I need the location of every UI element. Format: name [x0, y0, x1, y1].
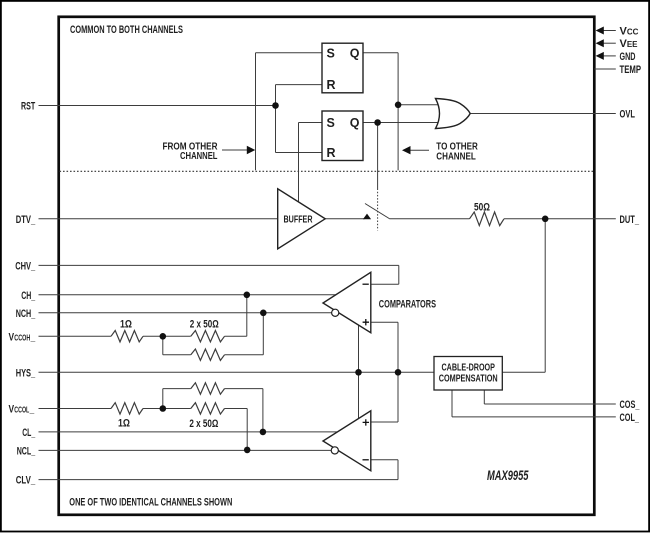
- svg-text:COS_: COS_: [620, 399, 641, 411]
- cable-droop compensation block: [434, 357, 502, 391]
- svg-text:GND: GND: [620, 51, 636, 63]
- wire GND pin: [602, 55, 616, 57]
- svg-text:COMPARATORS: COMPARATORS: [379, 299, 436, 311]
- comparator A minus sign: [363, 283, 369, 285]
- node Q1/OR junction: [395, 102, 402, 109]
- wire S2 vertical to buffer: [298, 123, 300, 202]
- resistor 50ohm zigzag: [470, 212, 505, 226]
- wire 2x50A to CL vertical: [225, 388, 263, 390]
- wire RST vertical to R inputs: [275, 85, 277, 153]
- svg-text:NCH_: NCH_: [16, 308, 36, 320]
- dotted separator line: [60, 170, 594, 172]
- svg-text:CHANNEL: CHANNEL: [436, 151, 476, 163]
- comparator B inverting bubble on NCL_: [331, 447, 338, 454]
- wire DTV_ input: [39, 218, 278, 220]
- svg-text:Q: Q: [350, 46, 360, 60]
- resistor 2x50 lower-A zigzag: [191, 383, 225, 394]
- svg-text:COL_: COL_: [620, 412, 640, 424]
- right pin labels: [620, 26, 642, 425]
- comparator B plus sign: [363, 419, 369, 425]
- node VCCOH junction: [160, 333, 167, 340]
- wire CLV_ input: [39, 479, 399, 481]
- wire Q2 output to OR gate input 2: [363, 122, 440, 124]
- svg-text:R: R: [327, 146, 336, 160]
- wire CL vertical: [262, 389, 264, 432]
- svg-text:CABLE-DROOP: CABLE-DROOP: [441, 363, 495, 374]
- wire CDC to COL stub: [451, 390, 453, 417]
- svg-text:CH_: CH_: [21, 290, 36, 302]
- wire OVL output: [470, 113, 616, 115]
- wire 1ohm to junction lower: [143, 408, 191, 410]
- wire R1 input: [276, 84, 323, 86]
- svg-text:1Ω: 1Ω: [118, 418, 130, 430]
- wire resistor to DUT_: [504, 218, 616, 220]
- switch arrowhead: [363, 214, 371, 220]
- svg-text:BUFFER: BUFFER: [284, 214, 313, 226]
- SR latch U1: [322, 43, 363, 93]
- svg-text:CCOH: CCOH: [14, 333, 30, 342]
- wire CHV vertical: [398, 265, 400, 284]
- svg-text:CLV_: CLV_: [16, 475, 36, 487]
- pin arrow VCC: [596, 27, 604, 35]
- svg-text:MAX9955: MAX9955: [487, 468, 529, 483]
- wire CDC output to DUT vertical: [502, 371, 545, 373]
- pin arrows VCC VEE GND: [596, 27, 604, 60]
- from other channel arrowhead: [247, 146, 256, 154]
- wire comparator B plus input: [371, 421, 398, 423]
- pin arrow GND: [596, 52, 604, 60]
- svg-text:CCOL: CCOL: [14, 406, 29, 415]
- wire HYS_ input: [39, 371, 435, 373]
- wire S2 input: [299, 122, 323, 124]
- svg-text:COMPENSATION: COMPENSATION: [439, 373, 498, 384]
- svg-text:CHANNEL: CHANNEL: [180, 150, 218, 162]
- resistor 1ohm lower zigzag: [111, 403, 143, 414]
- comparator B minus sign: [363, 459, 369, 461]
- wire NCH_ vertical to resistor: [262, 313, 264, 355]
- resistor 2x50 upper-B zigzag: [191, 349, 225, 360]
- wire R2 input: [276, 152, 323, 154]
- wire DUT node vertical: [544, 219, 546, 372]
- svg-text:HYS_: HYS_: [16, 367, 36, 379]
- svg-text:R: R: [327, 78, 336, 92]
- wire 2x50B to NCL vertical: [225, 408, 248, 410]
- wire Q1 vertical to other channel: [397, 53, 399, 171]
- wire switch to resistor: [390, 218, 470, 220]
- node CL junction: [260, 429, 267, 436]
- to other channel arrowhead: [402, 146, 411, 154]
- comparator A plus sign: [363, 319, 369, 325]
- wire lower branch horizontal: [163, 354, 191, 356]
- wire comparator B plus vertical to HYS: [397, 372, 399, 422]
- resistor 2x50 upper-A zigzag: [191, 331, 225, 342]
- wire switch control solid part: [377, 123, 379, 189]
- wire OR gate input 1: [398, 104, 440, 106]
- left pin labels: [15, 101, 36, 487]
- svg-text:2 x 50Ω: 2 x 50Ω: [189, 418, 218, 430]
- svg-text:VEE: VEE: [620, 38, 639, 50]
- svg-text:NCL_: NCL_: [17, 445, 36, 457]
- wire comparator A plus vertical to HYS: [397, 322, 399, 372]
- comparator A (upper, points left): [323, 272, 371, 332]
- pin VCCOL_: [9, 404, 35, 416]
- wire junction down to lower branch: [162, 336, 164, 355]
- wire comparator B minus vertical: [397, 460, 399, 480]
- wire junction up to upper branch: [162, 389, 164, 409]
- wire 2x50A to CH vertical: [225, 335, 247, 337]
- resistor 2x50 lower-B zigzag: [191, 403, 225, 414]
- svg-text:ONE OF TWO IDENTICAL CHANNELS: ONE OF TWO IDENTICAL CHANNELS SHOWN: [69, 497, 232, 509]
- svg-text:CL_: CL_: [22, 427, 36, 439]
- svg-text:_: _: [30, 331, 36, 343]
- wire CDC to COS stub: [483, 390, 485, 404]
- wire to other channel arrow line: [410, 149, 430, 151]
- svg-text:2 x 50Ω: 2 x 50Ω: [190, 318, 219, 330]
- wire VCCOH_ input: [39, 335, 112, 337]
- svg-text:S: S: [327, 116, 335, 130]
- svg-text:_: _: [29, 404, 35, 416]
- wire CH_ output: [39, 294, 336, 296]
- wire switch blade: [365, 204, 390, 220]
- svg-text:OVL: OVL: [620, 109, 636, 121]
- buffer amplifier: [278, 189, 326, 249]
- wire COS_ output: [484, 403, 616, 405]
- svg-text:1Ω: 1Ω: [120, 318, 132, 330]
- wire NCL_ output: [39, 449, 332, 451]
- wire from other channel arrow line: [222, 149, 248, 151]
- wire comparator A plus input: [371, 321, 398, 323]
- svg-text:S: S: [327, 46, 335, 60]
- node HYS junction 1: [355, 369, 362, 376]
- wire buffer output: [325, 218, 364, 220]
- SR latch U2: [322, 111, 363, 161]
- wire CHV_ input: [39, 264, 399, 266]
- wire VCCOL_ input: [39, 408, 112, 410]
- node NCL junction: [244, 447, 251, 454]
- wire switch control dashed part: [377, 189, 379, 231]
- node VCCOL junction: [160, 405, 167, 412]
- svg-text:VCC: VCC: [620, 26, 639, 38]
- wire VEE pin: [602, 42, 616, 44]
- main block outline: [59, 17, 595, 515]
- svg-text:Q: Q: [350, 116, 360, 130]
- wire S1 input from other channel: [256, 52, 323, 54]
- wire 1ohm to junction: [143, 335, 191, 337]
- pin arrow VEE: [596, 39, 604, 47]
- node NCH junction: [260, 310, 267, 317]
- pin VCCOH_: [9, 331, 36, 343]
- svg-text:50Ω: 50Ω: [474, 201, 490, 213]
- OR gate: [436, 99, 471, 129]
- wire VCC pin: [602, 30, 616, 32]
- wire from-other-channel vertical: [255, 53, 257, 171]
- node DUT junction: [542, 216, 549, 223]
- wire Q1 output: [363, 52, 398, 54]
- wire CL_ output: [39, 431, 338, 433]
- wire RST: [39, 105, 276, 107]
- wire NCH_ output: [39, 312, 332, 314]
- wire 2x50B to NCH vertical: [225, 354, 264, 356]
- wire comparator A slant vertical to HYS: [358, 325, 360, 372]
- svg-text:RST: RST: [21, 101, 35, 113]
- resistor 1ohm upper zigzag: [111, 331, 143, 342]
- wire upper branch horizontal: [163, 388, 191, 390]
- wire CH_ vertical to resistor: [246, 295, 248, 337]
- node Q2/control junction: [374, 119, 381, 126]
- wire TEMP pin: [594, 68, 616, 70]
- svg-text:DUT_: DUT_: [620, 214, 640, 226]
- svg-text:TEMP: TEMP: [620, 64, 642, 76]
- svg-text:DTV_: DTV_: [16, 214, 36, 226]
- wire comparator B minus input: [371, 459, 398, 461]
- wire COL_ output: [452, 416, 616, 418]
- wire comparator B slant vertical to HYS: [358, 372, 360, 418]
- comparator B (lower, points left): [323, 411, 371, 471]
- wire comparator A minus input: [371, 283, 399, 285]
- node RST junction: [272, 102, 279, 109]
- svg-text:COMMON TO BOTH CHANNELS: COMMON TO BOTH CHANNELS: [70, 24, 183, 36]
- comparator A inverting bubble on NCH_: [332, 309, 339, 316]
- svg-text:CHV_: CHV_: [15, 260, 36, 272]
- node HYS junction 2: [395, 369, 402, 376]
- wire NCL vertical: [246, 409, 248, 450]
- node CH junction: [244, 292, 251, 299]
